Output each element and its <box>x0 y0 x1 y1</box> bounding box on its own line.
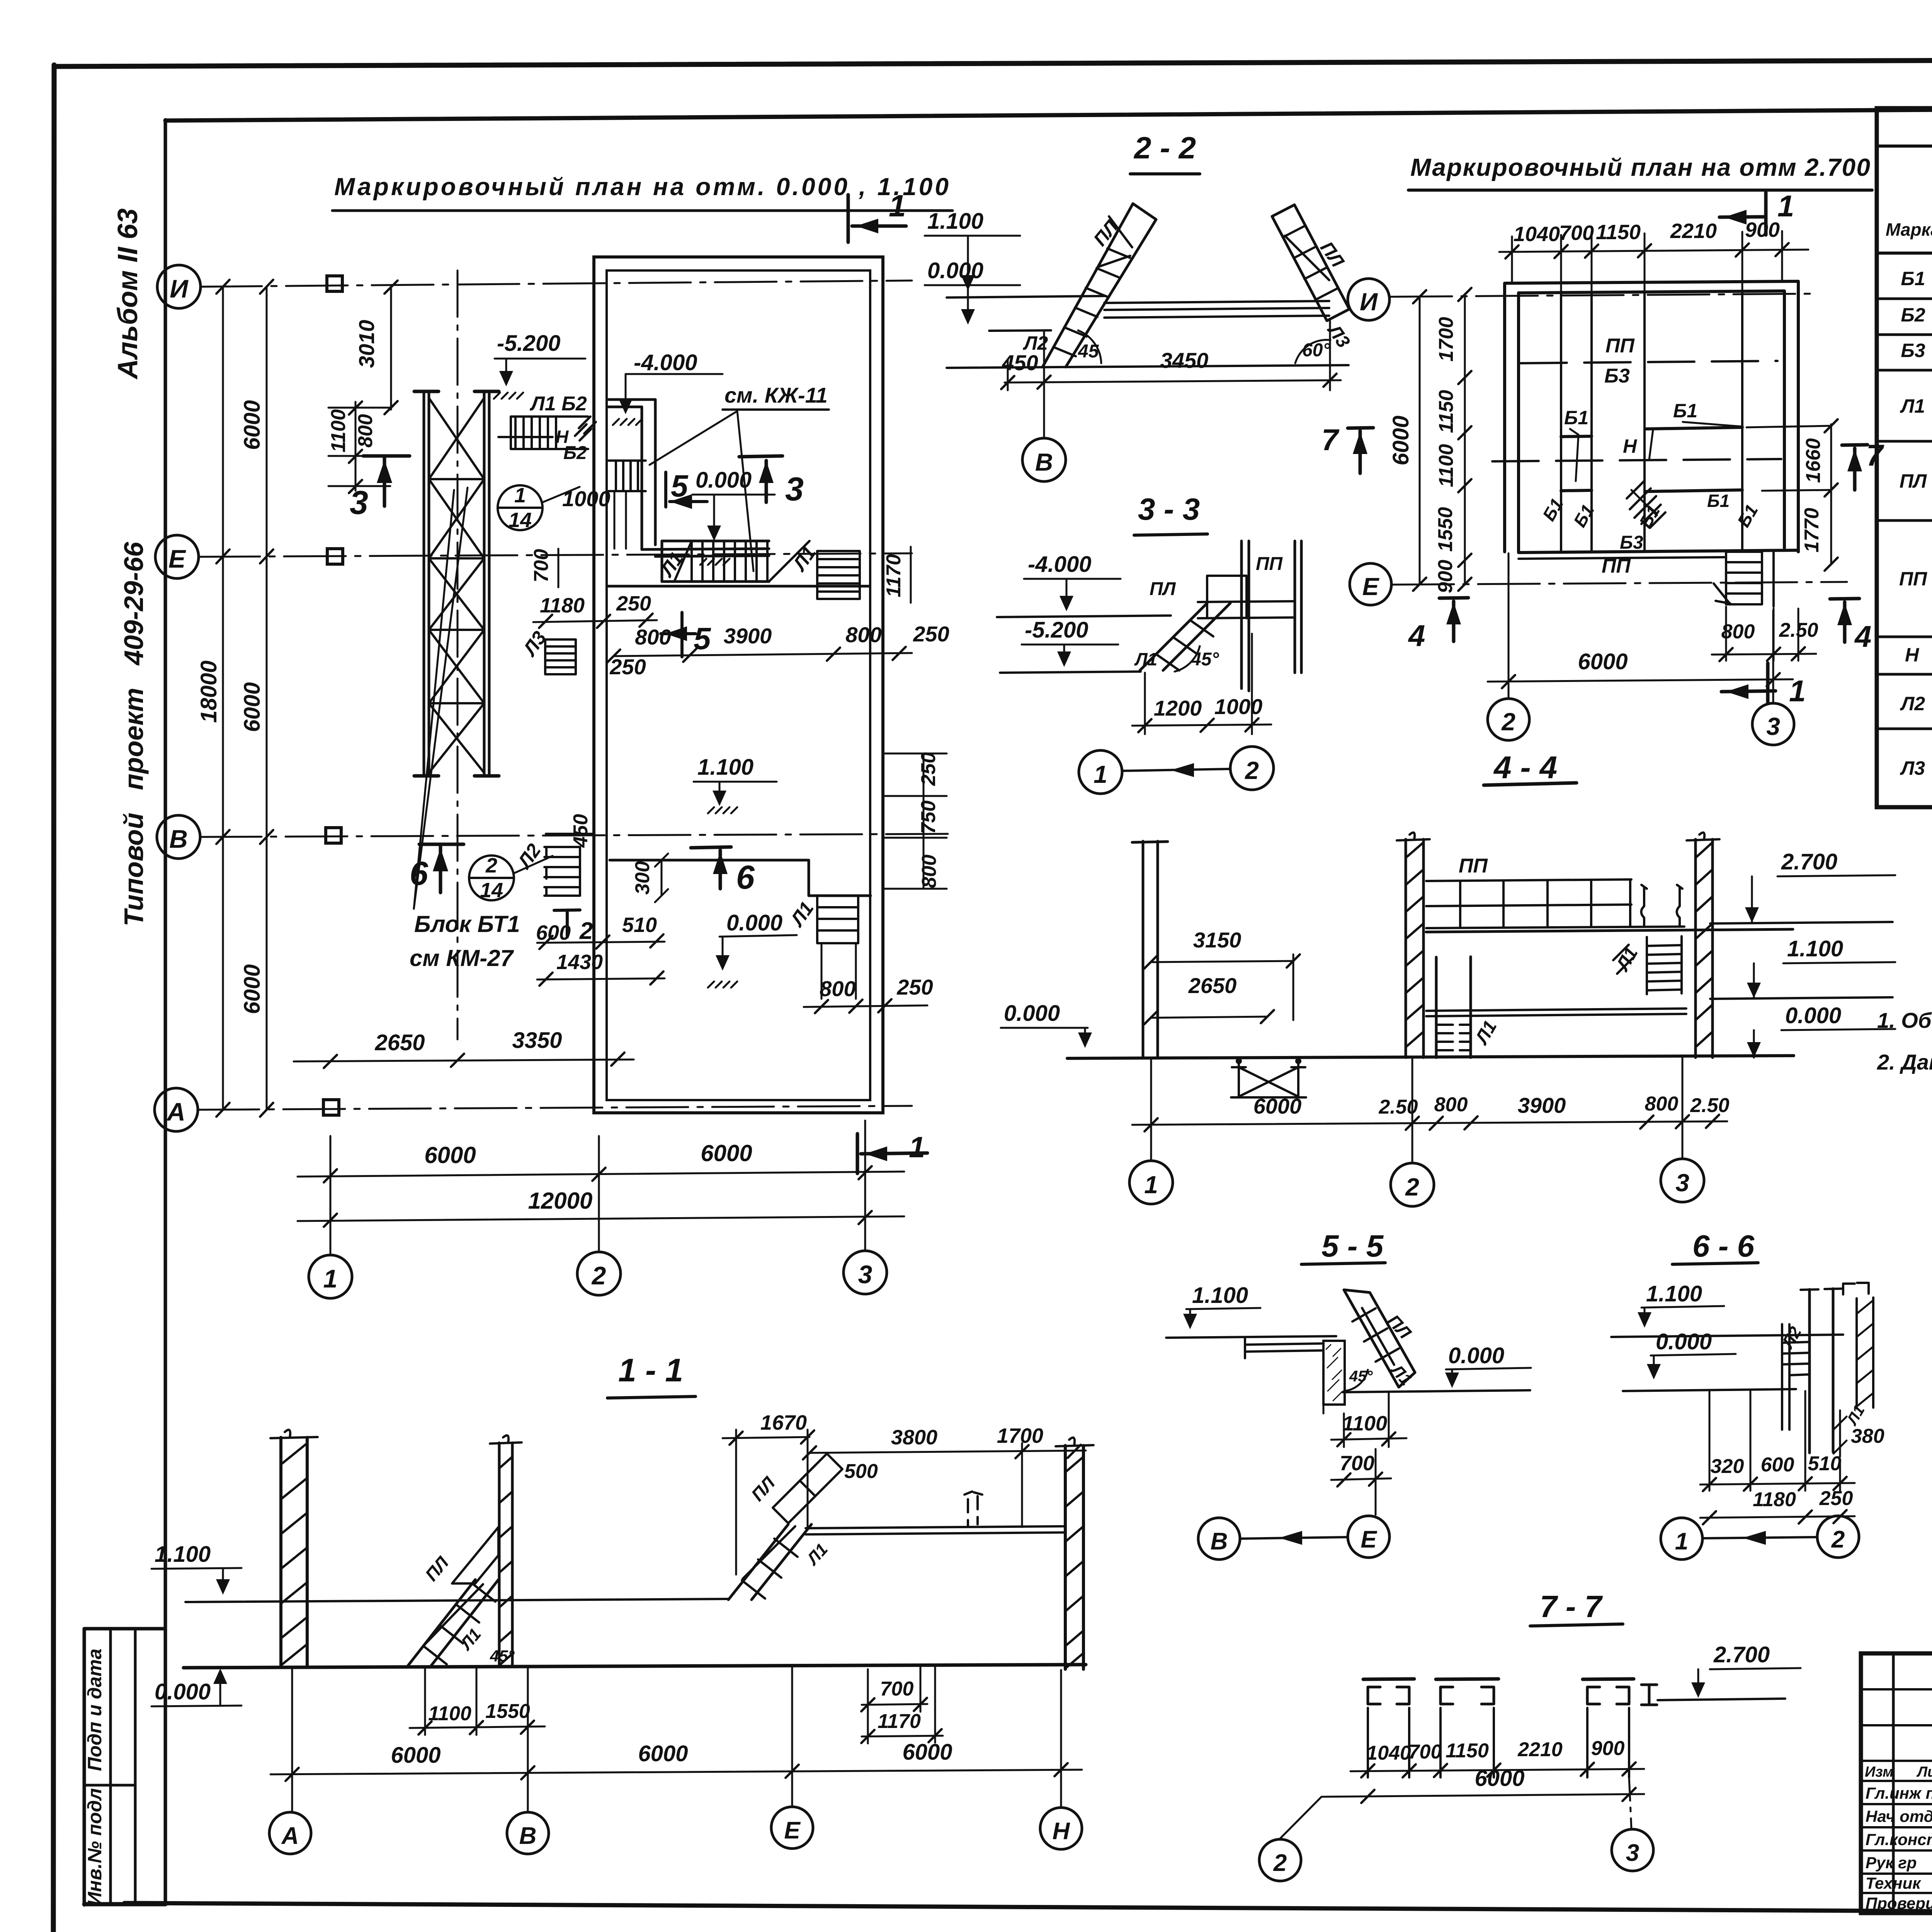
svg-text:5 - 5: 5 - 5 <box>1321 1229 1384 1263</box>
plan2700 circle 2 <box>1488 699 1529 740</box>
table header lines <box>1877 146 1932 253</box>
section cut 2 mark <box>554 910 580 937</box>
plan2700 left sub chain <box>1464 294 1466 584</box>
detail circle 1/14 <box>498 485 543 530</box>
svg-text:1.100: 1.100 <box>1192 1283 1248 1308</box>
axis circle 3 <box>844 1251 887 1294</box>
plan2700 bottom wall <box>1519 550 1798 553</box>
2-2 level line 1.100 <box>947 296 1106 298</box>
6-6 stair Л2 treads <box>1782 1342 1810 1375</box>
svg-text:2210: 2210 <box>1670 219 1717 243</box>
svg-text:250: 250 <box>917 752 940 786</box>
svg-text:1.100: 1.100 <box>927 209 983 234</box>
svg-text:0.000: 0.000 <box>726 910 782 935</box>
svg-text:1550: 1550 <box>485 1700 530 1723</box>
svg-text:6: 6 <box>410 855 429 892</box>
svg-text:3350: 3350 <box>512 1028 562 1053</box>
svg-text:6000: 6000 <box>424 1142 476 1168</box>
svg-text:750: 750 <box>917 801 940 834</box>
1-1 wall Н hatched <box>1065 1446 1083 1669</box>
svg-text:2.50: 2.50 <box>1690 1094 1729 1117</box>
building inner wall line <box>607 270 870 1100</box>
detail circle 2/14 <box>469 855 514 900</box>
plan2700 ПП dashed upper <box>1520 361 1777 363</box>
3-3 landing <box>1198 576 1295 618</box>
5-5 stair band <box>1344 1290 1415 1387</box>
dim line 6000 vertical <box>266 287 268 1110</box>
svg-text:6000: 6000 <box>1578 649 1628 674</box>
svg-text:6000: 6000 <box>391 1743 440 1768</box>
svg-text:1200: 1200 <box>1154 696 1202 720</box>
1-1 stair 2 <box>728 1524 811 1600</box>
svg-text:1.100: 1.100 <box>1787 936 1843 961</box>
svg-text:700: 700 <box>1559 221 1594 245</box>
svg-text:Б1: Б1 <box>1564 407 1588 429</box>
L-room vertical wall <box>642 400 655 549</box>
svg-text:1150: 1150 <box>1446 1740 1489 1762</box>
svg-text:2: 2 <box>485 854 497 877</box>
svg-text:-5.200: -5.200 <box>1025 617 1088 643</box>
6-6 circle 2 <box>1817 1516 1859 1558</box>
svg-text:1: 1 <box>889 189 906 223</box>
2-2 deck lines <box>1104 301 1329 318</box>
svg-text:-5.200: -5.200 <box>497 331 560 356</box>
svg-text:2650: 2650 <box>1188 973 1237 998</box>
svg-text:В: В <box>1035 448 1053 476</box>
svg-text:3010: 3010 <box>354 320 379 368</box>
title block outer <box>1861 1653 1932 1913</box>
3-3 wall right pair <box>1295 541 1301 673</box>
svg-text:320: 320 <box>1711 1455 1744 1478</box>
svg-text:Н: Н <box>1905 644 1919 666</box>
7-7 circle 3 <box>1612 1829 1653 1871</box>
1-1 circle Е <box>771 1807 813 1849</box>
5-5 ground line 0.000 <box>1343 1390 1530 1392</box>
4-4 footing tower <box>1231 1062 1306 1097</box>
axis Е line <box>198 553 912 557</box>
4-4 platform grid <box>1426 879 1684 928</box>
svg-text:0.000: 0.000 <box>1656 1329 1712 1354</box>
5-5 circle В <box>1198 1518 1240 1560</box>
svg-text:0.000: 0.000 <box>696 468 752 493</box>
svg-text:Б1: Б1 <box>1707 491 1730 511</box>
svg-text:380: 380 <box>1851 1425 1884 1447</box>
svg-text:900: 900 <box>1745 218 1780 241</box>
svg-text:1100: 1100 <box>428 1702 471 1725</box>
tower right rail <box>484 391 489 776</box>
svg-text:510: 510 <box>622 913 657 937</box>
svg-text:5: 5 <box>694 621 711 656</box>
svg-text:60°: 60° <box>1302 340 1330 361</box>
connection line В-axis to stair <box>546 833 594 835</box>
svg-text:Л1: Л1 <box>1900 395 1925 417</box>
svg-text:700: 700 <box>1408 1741 1442 1763</box>
svg-text:1150: 1150 <box>1435 390 1458 433</box>
7-7 I mark <box>1641 1685 1657 1705</box>
svg-text:250: 250 <box>1819 1487 1853 1510</box>
4-4 circle 2 <box>1391 1163 1434 1206</box>
4-4 bottom dims <box>1132 1121 1727 1125</box>
svg-text:1700: 1700 <box>1435 317 1458 362</box>
svg-text:3: 3 <box>858 1260 872 1289</box>
3-3 ground line <box>1000 672 1141 673</box>
svg-text:1: 1 <box>1094 760 1107 788</box>
svg-text:ПП: ПП <box>1605 335 1635 357</box>
svg-text:Б2: Б2 <box>563 443 587 463</box>
svg-text:3800: 3800 <box>891 1426 937 1449</box>
svg-text:ПП: ПП <box>1899 568 1927 590</box>
axis circle 1 <box>309 1255 352 1298</box>
svg-text:Изм: Изм <box>1865 1764 1893 1780</box>
svg-text:1100: 1100 <box>1342 1412 1387 1435</box>
4-4 circle 1 <box>1129 1161 1173 1204</box>
svg-text:2210: 2210 <box>1517 1738 1563 1761</box>
4-4 lower stair dashes <box>1437 1025 1471 1050</box>
svg-text:В: В <box>169 825 188 853</box>
5-5 deck slab <box>1245 1338 1321 1358</box>
floor step edge <box>610 860 871 896</box>
inner frame top <box>165 105 1932 121</box>
2-2 ext dashdot to В <box>1043 386 1045 436</box>
7-7 channel group 1 <box>1363 1679 1414 1679</box>
svg-text:1: 1 <box>1675 1528 1688 1555</box>
svg-text:1550: 1550 <box>1434 507 1457 552</box>
svg-text:6000: 6000 <box>240 400 265 450</box>
svg-text:3: 3 <box>350 484 368 521</box>
svg-text:0.000: 0.000 <box>1448 1343 1504 1368</box>
svg-text:1100: 1100 <box>1435 444 1458 487</box>
plan2700 bottom stair <box>1726 552 1762 604</box>
svg-text:1170: 1170 <box>878 1710 921 1733</box>
svg-text:0.000: 0.000 <box>927 258 983 283</box>
svg-text:Техник: Техник <box>1866 1874 1921 1892</box>
svg-text:6000: 6000 <box>1475 1766 1524 1791</box>
svg-text:Инв.№ подл: Инв.№ подл <box>84 1788 105 1906</box>
svg-text:В: В <box>519 1823 537 1849</box>
svg-text:3900: 3900 <box>724 624 772 648</box>
svg-text:Л2: Л2 <box>1900 693 1925 714</box>
svg-text:ПП: ПП <box>1459 855 1488 877</box>
svg-text:700: 700 <box>880 1678 914 1700</box>
1-1 circle Н <box>1040 1808 1082 1849</box>
inner frame left <box>164 120 167 1904</box>
svg-text:14: 14 <box>509 509 532 532</box>
svg-text:Маркировочный план на отм 2.70: Маркировочный план на отм 2.700 <box>1410 153 1870 181</box>
svg-text:1: 1 <box>1777 189 1794 223</box>
1-1 bottom chain <box>270 1770 1082 1774</box>
tower caps <box>414 391 499 776</box>
svg-text:1: 1 <box>323 1264 338 1293</box>
svg-text:ПП: ПП <box>1256 554 1283 574</box>
4-4 deck double line <box>1426 929 1793 932</box>
L-room top wall <box>609 400 655 407</box>
2-2 dim 450 3450 <box>1005 321 1341 437</box>
4-4 circle ext lines <box>1151 1057 1682 1163</box>
plan2700 circle 3 <box>1752 703 1794 745</box>
plan2700 axis Е line <box>1392 582 1847 585</box>
plan2700 beam Б1 left <box>1561 436 1592 437</box>
1-1 axis ext verticals <box>292 1665 1061 1812</box>
1-1 stair 1 platform <box>452 1527 498 1583</box>
plan2700 grid verticals <box>1561 291 1742 552</box>
section mark 3 (inner) <box>739 456 782 502</box>
svg-text:1.100: 1.100 <box>155 1542 211 1567</box>
plan2700 beam Б1 right <box>1646 427 1742 429</box>
svg-text:6000: 6000 <box>701 1140 752 1166</box>
7-7 dim chain <box>1350 1769 1644 1771</box>
plan2700 left 6000 chain <box>1419 297 1421 584</box>
svg-text:-4.000: -4.000 <box>634 350 697 375</box>
axis circle И <box>157 265 201 308</box>
svg-text:300: 300 <box>631 861 654 895</box>
lower stair inside <box>817 896 858 943</box>
svg-text:А: А <box>166 1097 185 1126</box>
svg-text:Лист: Лист <box>1916 1764 1932 1780</box>
hatch marks <box>575 417 596 440</box>
svg-text:250: 250 <box>616 592 651 615</box>
svg-text:800: 800 <box>354 414 377 448</box>
7-7 channel group 2 <box>1436 1679 1498 1679</box>
plan2700 section mark 7 right <box>1842 445 1867 490</box>
svg-text:Маркировочный план на отм. 0.0: Маркировочный план на отм. 0.000 , 1.100 <box>334 173 949 201</box>
svg-text:1700: 1700 <box>997 1424 1043 1447</box>
svg-text:3 - 3: 3 - 3 <box>1138 492 1200 526</box>
1-1 stair 2 platform ПЛ <box>773 1454 842 1523</box>
1-1 circle В <box>507 1812 549 1854</box>
plan2700 section mark 1 bottom <box>1721 663 1776 702</box>
svg-text:Рук гр: Рук гр <box>1866 1854 1917 1872</box>
4-4 deck 1.100 <box>1426 1009 1686 1016</box>
2-2 left platform ПЛ cross <box>1097 216 1132 277</box>
svg-text:1. Общие указания см на: 1. Общие указания см на листе КМ-21. <box>1877 1008 1932 1032</box>
plan2700 circle И <box>1348 279 1389 320</box>
svg-text:Типовой проект 409-29-66: Типовой проект 409-29-66 <box>119 541 149 926</box>
svg-text:2: 2 <box>1501 708 1515 736</box>
svg-text:3900: 3900 <box>1518 1093 1566 1117</box>
svg-text:И: И <box>1360 288 1378 316</box>
svg-text:7: 7 <box>1321 423 1340 457</box>
svg-text:900: 900 <box>1434 560 1457 594</box>
column square В <box>326 828 341 843</box>
section mark 6 (left) <box>419 844 464 893</box>
axis А line <box>197 1106 912 1110</box>
5-5 circle Е <box>1348 1516 1389 1558</box>
plan2700 axis И line <box>1390 294 1816 297</box>
6-6 top brackets <box>1843 1283 1869 1294</box>
section mark 6 (inner) <box>691 847 731 889</box>
svg-text:Б3: Б3 <box>1620 532 1643 553</box>
axis circle Е <box>155 535 199 578</box>
3-3 circle 2 <box>1230 747 1274 790</box>
svg-text:600: 600 <box>1761 1454 1794 1476</box>
svg-text:800: 800 <box>845 622 881 647</box>
plan2700 bottom 6000 dim <box>1488 679 1793 682</box>
svg-text:1170: 1170 <box>883 554 905 597</box>
dim 1170 rotated <box>910 547 912 603</box>
svg-text:Н: Н <box>1623 435 1637 457</box>
svg-text:7 - 7: 7 - 7 <box>1540 1589 1603 1624</box>
4-4 ground line <box>1067 1056 1794 1058</box>
svg-text:6 - 6: 6 - 6 <box>1692 1229 1755 1263</box>
plan2700 top dim chain <box>1499 250 1808 252</box>
svg-text:1180: 1180 <box>540 594 585 617</box>
5-5 line В-Е <box>1241 1537 1348 1539</box>
svg-text:см КМ-27: см КМ-27 <box>410 945 514 971</box>
svg-text:-4.000: -4.000 <box>1028 552 1091 577</box>
1-1 ground line <box>184 1665 1086 1668</box>
4-4 break marks <box>1641 885 1683 925</box>
svg-text:250: 250 <box>896 975 933 999</box>
svg-text:1 - 1: 1 - 1 <box>618 1352 683 1388</box>
svg-text:1: 1 <box>1144 1171 1158 1199</box>
dim 1100/800 <box>328 402 390 491</box>
outer border top <box>54 58 1932 66</box>
1-1 wall В hatched <box>499 1443 512 1667</box>
plan2700 ext to circles <box>1509 553 1773 702</box>
svg-text:2 - 2: 2 - 2 <box>1133 131 1196 165</box>
svg-text:И: И <box>170 274 189 303</box>
title block left rows <box>1861 1689 1932 1893</box>
svg-text:Н: Н <box>1053 1818 1070 1845</box>
building outer wall <box>594 257 883 1113</box>
svg-text:2: 2 <box>1245 757 1259 784</box>
svg-text:3: 3 <box>1766 713 1780 740</box>
svg-text:3: 3 <box>1626 1840 1639 1866</box>
axis circle 2 <box>577 1252 621 1295</box>
axis В line <box>200 834 951 837</box>
2-2 right stair Л3 <box>1272 205 1349 321</box>
svg-text:18000: 18000 <box>196 660 221 723</box>
svg-text:250: 250 <box>913 622 949 646</box>
svg-text:Б2: Б2 <box>1901 304 1925 326</box>
inner frame bottom <box>124 1903 1932 1916</box>
svg-text:1: 1 <box>909 1131 925 1164</box>
svg-text:6: 6 <box>736 859 755 896</box>
svg-text:ПП: ПП <box>1602 555 1631 577</box>
svg-text:1770: 1770 <box>1801 508 1823 553</box>
svg-text:4 - 4: 4 - 4 <box>1493 750 1557 785</box>
svg-text:Л1 Б2: Л1 Б2 <box>529 393 587 415</box>
svg-text:1040: 1040 <box>1366 1742 1411 1764</box>
svg-text:6000: 6000 <box>1253 1094 1302 1118</box>
svg-text:0.000: 0.000 <box>1785 1003 1841 1028</box>
2-2 left stair Л2 <box>1043 204 1156 367</box>
svg-text:1.100: 1.100 <box>697 755 753 780</box>
svg-text:Альбом II 63: Альбом II 63 <box>112 208 143 379</box>
axis circle В <box>157 815 200 859</box>
svg-text:450: 450 <box>1002 350 1038 375</box>
svg-text:2. Данный лист см. совмест: 2. Данный лист см. совместно с листом КМ… <box>1877 1050 1932 1074</box>
floor edge line <box>607 585 869 588</box>
svg-text:6000: 6000 <box>638 1741 688 1766</box>
svg-text:1150: 1150 <box>1596 221 1641 244</box>
4-4 circle 3 <box>1661 1159 1704 1202</box>
svg-text:900: 900 <box>1591 1737 1625 1760</box>
bottom dim 6000/6000 <box>298 1172 904 1177</box>
svg-text:6000: 6000 <box>240 682 265 732</box>
column square И <box>327 276 342 291</box>
plan2700 section mark 7 left <box>1348 428 1373 473</box>
3-3 level line -4.000 <box>997 616 1171 617</box>
plan2700 hatch <box>1627 481 1665 528</box>
svg-text:510: 510 <box>1808 1452 1842 1475</box>
axis И line <box>200 281 912 287</box>
1-1 rail break <box>968 1496 978 1526</box>
svg-text:450: 450 <box>570 814 592 848</box>
1-1 level 1.100 line <box>185 1599 728 1602</box>
svg-text:Подп и дата: Подп и дата <box>84 1648 105 1771</box>
svg-text:Л3: Л3 <box>1900 757 1925 779</box>
dims 800 5 3900 800 250 row <box>614 653 912 656</box>
4-4 stair Л1 upper <box>1647 936 1682 994</box>
dim ticks left chains <box>216 280 230 1117</box>
section cut 1 bottom of plan <box>857 1134 927 1173</box>
3-3 circle 1 <box>1079 750 1122 794</box>
plan2700 Н dashed <box>1492 459 1781 461</box>
svg-text:800: 800 <box>1645 1093 1679 1115</box>
column square Е <box>327 549 343 564</box>
bottom dim 12000 <box>298 1216 904 1221</box>
section mark 3 (left) <box>363 456 410 506</box>
2-2 cut mark 1 top <box>848 195 906 242</box>
svg-text:2: 2 <box>1273 1850 1287 1876</box>
Л2 stair lower left <box>544 847 580 896</box>
6-6 posts <box>1810 1289 1833 1453</box>
svg-text:1000: 1000 <box>562 486 611 511</box>
dim 2650/3350 <box>294 1060 634 1061</box>
6-6 line 1-2 <box>1702 1537 1817 1538</box>
2-2 level line 0.000 short <box>989 330 1051 331</box>
svg-text:600: 600 <box>536 921 571 944</box>
7-7 ext lines to circles <box>1280 1797 1321 1838</box>
4-4 wall axis2 hatched <box>1406 839 1423 1058</box>
svg-text:2: 2 <box>591 1261 606 1290</box>
section mark 5 (upper) <box>666 472 707 507</box>
svg-text:В: В <box>1211 1528 1228 1555</box>
section mark 5 (lower) <box>661 612 696 657</box>
6-6 wall pair left <box>1782 1324 1789 1430</box>
plan2700 section mark 4 right <box>1830 599 1859 642</box>
svg-text:1040: 1040 <box>1514 223 1560 246</box>
svg-text:Нач отд: Нач отд <box>1866 1807 1932 1825</box>
corridor diag <box>674 541 810 582</box>
svg-text:14: 14 <box>480 879 503 902</box>
interior stair in L-room <box>609 461 646 491</box>
plan2700 section mark 1 top <box>1719 192 1766 235</box>
svg-text:1000: 1000 <box>1214 694 1263 719</box>
svg-text:Б3: Б3 <box>1604 365 1630 387</box>
leader Блок БТ1 <box>414 488 468 909</box>
7-7 dim 6000 <box>1321 1794 1644 1797</box>
svg-text:5: 5 <box>671 469 689 503</box>
bottom extension lines <box>330 1121 865 1255</box>
svg-text:250: 250 <box>609 655 646 679</box>
axis circle А <box>155 1088 198 1131</box>
1-1 circle А <box>269 1812 311 1854</box>
svg-text:Проверил: Проверил <box>1866 1894 1932 1912</box>
svg-text:ПЛ: ПЛ <box>1900 470 1927 492</box>
svg-text:Е: Е <box>1361 1526 1377 1553</box>
right small stair <box>817 551 860 599</box>
svg-text:1430: 1430 <box>556 951 603 974</box>
exterior stair Л1 Б2 <box>511 417 588 449</box>
corridor treads <box>692 541 767 582</box>
title block verticals left part <box>1893 1653 1932 1913</box>
svg-text:Б1: Б1 <box>1673 400 1697 422</box>
3-3 wall left pair <box>1242 541 1249 691</box>
svg-text:2: 2 <box>579 918 593 944</box>
svg-text:2: 2 <box>1831 1526 1845 1553</box>
